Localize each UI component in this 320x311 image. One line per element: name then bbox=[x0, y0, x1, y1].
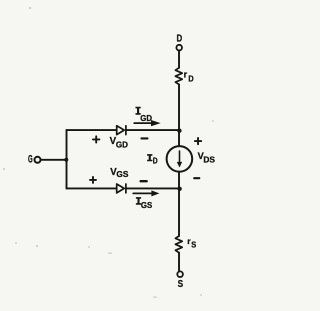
wire lower branch anode side bbox=[67, 187, 117, 189]
wire lower branch cathode side bbox=[126, 187, 179, 189]
polarity plus VDS bbox=[195, 138, 201, 144]
diode gate-source bbox=[117, 184, 126, 193]
polarity plus VGS bbox=[90, 177, 96, 183]
svg-text:DS: DS bbox=[203, 155, 215, 165]
svg-text:GD: GD bbox=[116, 140, 128, 150]
diode gate-drain bbox=[117, 126, 126, 135]
svg-text:S: S bbox=[178, 279, 184, 290]
wire left vertical gate bus bbox=[66, 130, 68, 188]
node junction gate bbox=[64, 158, 68, 162]
wire top branch anode side bbox=[67, 129, 117, 131]
polarity minus VGD bbox=[141, 137, 147, 139]
arrow IGS bbox=[133, 192, 152, 194]
node junction source internal bbox=[177, 187, 181, 191]
label IGS bbox=[136, 198, 141, 204]
svg-text:r: r bbox=[184, 70, 188, 80]
current source arrow bbox=[179, 151, 181, 162]
svg-text:D: D bbox=[177, 33, 183, 44]
svg-text:D: D bbox=[188, 73, 193, 83]
label IGD bbox=[136, 108, 141, 114]
wire gate stub bbox=[41, 159, 66, 161]
svg-text:GS: GS bbox=[141, 201, 153, 210]
svg-text:S: S bbox=[191, 239, 196, 249]
wire D terminal to rD bbox=[178, 51, 180, 68]
node G terminal circle bbox=[35, 157, 41, 163]
wire top branch cathode side bbox=[126, 129, 179, 131]
wire rS to S terminal bbox=[178, 253, 180, 272]
polarity minus VDS bbox=[194, 177, 199, 179]
node D terminal circle bbox=[176, 45, 182, 51]
svg-text:D: D bbox=[153, 157, 158, 166]
node S terminal circle bbox=[177, 271, 183, 277]
polarity plus VGD bbox=[93, 136, 99, 142]
resistor rD bbox=[175, 68, 182, 85]
polarity minus VGS bbox=[141, 180, 147, 182]
node junction drain internal bbox=[177, 129, 181, 133]
current source ID circle bbox=[167, 146, 193, 172]
wire rD to drain junction bbox=[178, 84, 180, 146]
svg-text:GD: GD bbox=[140, 113, 152, 123]
arrow IGD bbox=[134, 122, 151, 124]
label ID bbox=[147, 155, 152, 161]
wire current source to source junction bbox=[178, 172, 180, 236]
resistor rS bbox=[175, 236, 182, 253]
scan speckles bbox=[3, 7, 214, 298]
svg-text:GS: GS bbox=[116, 169, 128, 179]
svg-text:G: G bbox=[28, 154, 33, 166]
